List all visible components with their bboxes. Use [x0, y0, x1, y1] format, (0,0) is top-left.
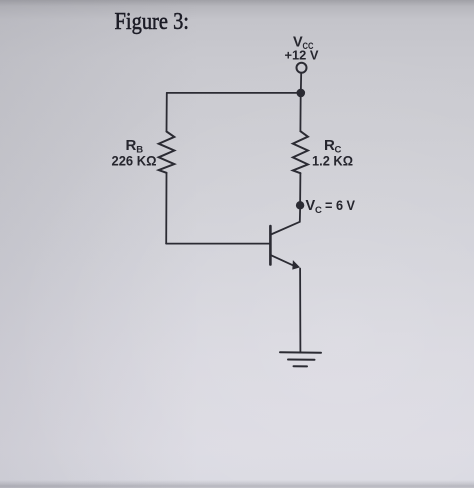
power terminal Vcc	[297, 63, 307, 73]
svg-text:226 KΩ: 226 KΩ	[112, 153, 157, 169]
label RC	[324, 137, 342, 156]
label RB	[126, 137, 144, 156]
wire base horizontal	[166, 243, 270, 245]
svg-text:R: R	[324, 137, 335, 154]
wire emitter to ground vertical	[299, 269, 301, 353]
svg-text:+12 V: +12 V	[285, 49, 320, 63]
junction dot Vcc rail	[297, 89, 306, 98]
svg-text:C: C	[315, 205, 322, 216]
svg-text:Figure 3:: Figure 3:	[115, 9, 190, 35]
transistor Q1 base bar	[269, 226, 272, 265]
wire RB bottom vertical	[165, 173, 167, 244]
svg-text:R: R	[126, 137, 137, 154]
resistor RB	[159, 132, 175, 173]
node VC junction dot	[296, 201, 304, 209]
transistor Q1 collector diagonal	[271, 210, 300, 235]
wire RC top vertical	[299, 93, 301, 131]
wire RB top vertical	[166, 93, 168, 132]
resistor RC	[293, 131, 308, 173]
svg-text:V: V	[306, 198, 316, 214]
ground	[280, 352, 321, 366]
label Vcc	[293, 34, 314, 51]
wire RC bottom vertical	[299, 173, 301, 205]
transistor Q1 emitter diagonal with arrow	[271, 255, 300, 269]
svg-text:1.2 KΩ: 1.2 KΩ	[312, 152, 353, 168]
label VC = 6 V	[306, 198, 356, 216]
svg-text:= 6 V: = 6 V	[325, 198, 355, 213]
wire Vcc terminal to rail junction	[300, 73, 302, 93]
wire top rail horizontal	[167, 92, 301, 94]
